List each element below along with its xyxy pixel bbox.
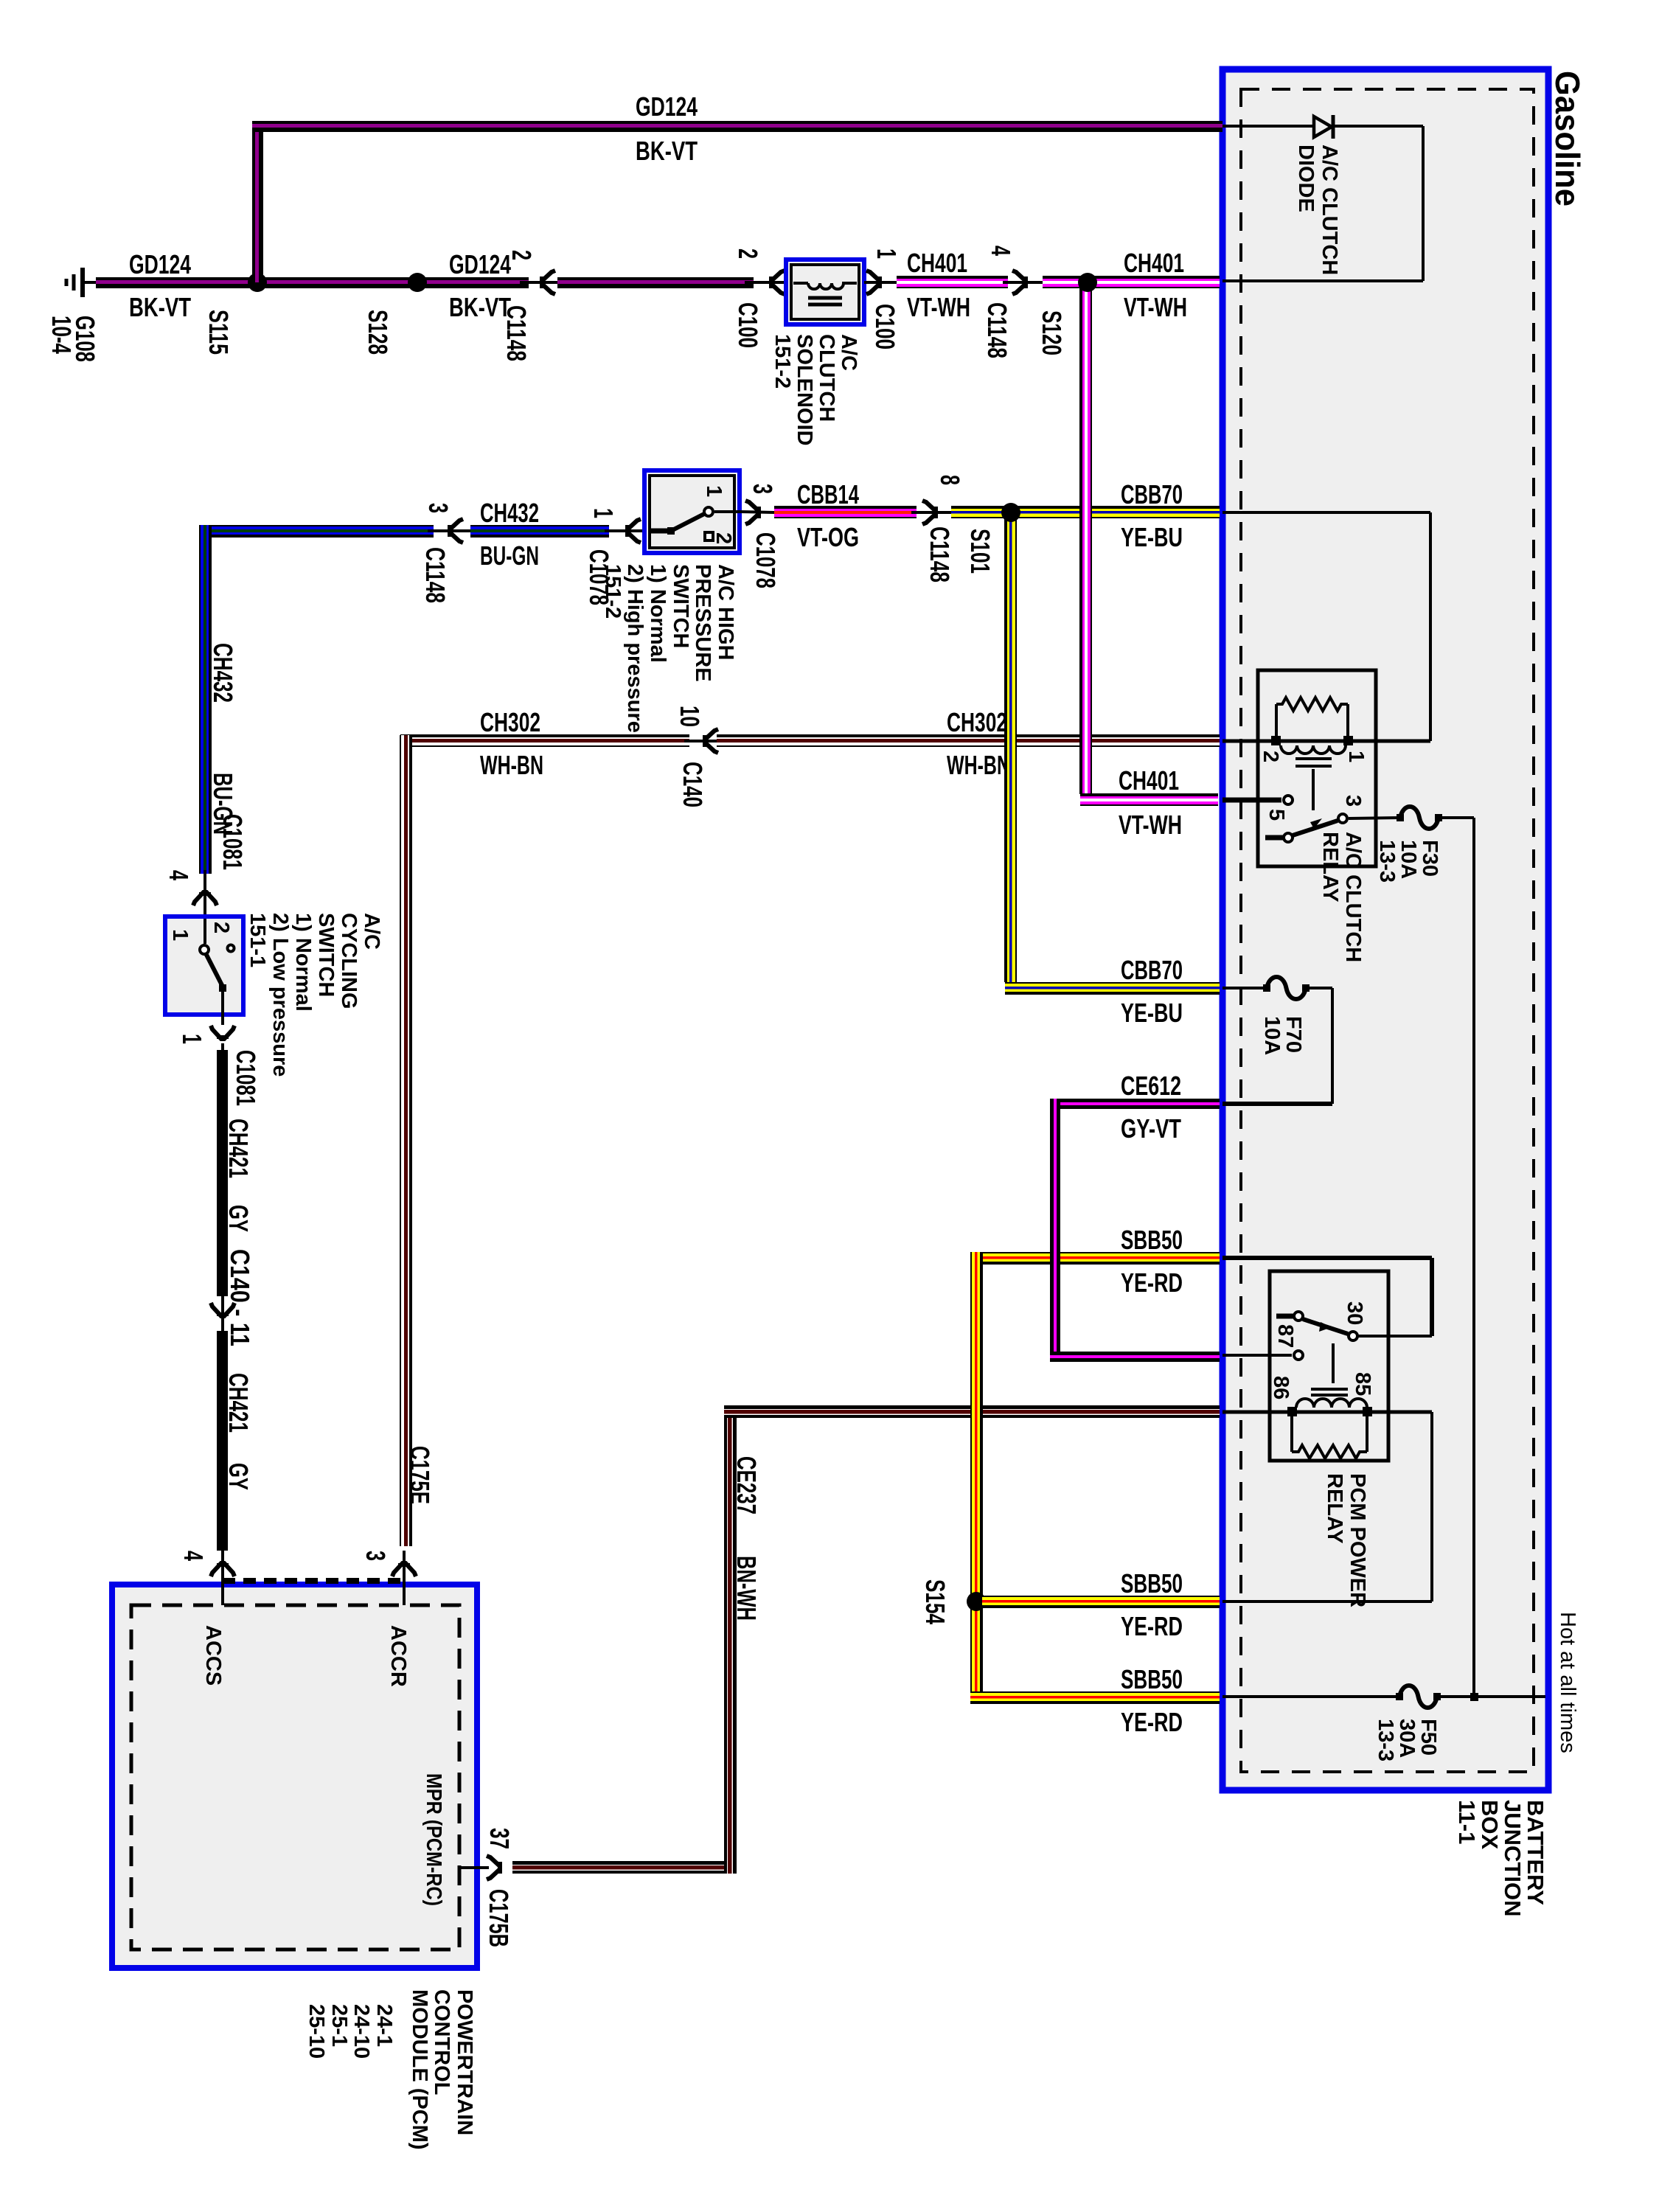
A/C relay pin 5 contact <box>1284 796 1293 804</box>
powertrain control module box <box>112 1585 477 1968</box>
PCM pin 37 arrow <box>487 1856 500 1879</box>
svg-text:2: 2 <box>209 922 233 933</box>
svg-text:A/C CLUTCH: A/C CLUTCH <box>1341 832 1365 962</box>
svg-text:CBB70: CBB70 <box>1121 955 1183 985</box>
svg-text:VT-WH: VT-WH <box>1119 810 1182 840</box>
wire CE237 BN-WH horizontal top <box>724 1405 1220 1418</box>
splice S154 <box>967 1592 986 1611</box>
svg-text:CLUTCH: CLUTCH <box>815 334 838 422</box>
svg-text:A/C: A/C <box>360 913 383 950</box>
A/C clutch relay box <box>1258 670 1376 866</box>
svg-text:10A: 10A <box>1260 1016 1284 1055</box>
svg-text:1: 1 <box>702 485 726 497</box>
HP switch pin1 contact <box>704 507 713 516</box>
wire SBB50 YE-RD #2 <box>982 1596 1220 1608</box>
svg-text:CYCLING: CYCLING <box>337 913 361 1009</box>
svg-text:VT-OG: VT-OG <box>797 522 859 552</box>
wire CE612 GY-VT horizontal top <box>1050 1099 1220 1109</box>
svg-text:BN-WH: BN-WH <box>731 1556 762 1621</box>
A/C relay core bars <box>1295 757 1332 760</box>
svg-text:S154: S154 <box>920 1579 950 1624</box>
svg-text:CH432: CH432 <box>480 498 539 528</box>
svg-text:BK-VT: BK-VT <box>636 136 698 166</box>
svg-text:4: 4 <box>178 1551 209 1561</box>
wire CH401 VT-WH segment 2 <box>1043 276 1220 288</box>
svg-text:BK-VT: BK-VT <box>449 292 511 322</box>
wire CE237 BN-WH vertical <box>724 1412 737 1874</box>
A/C relay pin 5 line <box>1222 798 1281 803</box>
svg-text:1: 1 <box>168 929 192 941</box>
svg-text:CH421: CH421 <box>223 1119 254 1178</box>
PCM inner dashed border <box>131 1605 459 1950</box>
svg-text:24-10: 24-10 <box>349 2004 373 2059</box>
svg-text:3: 3 <box>423 503 453 513</box>
PCM power relay box <box>1270 1271 1388 1461</box>
A/C relay pin 3 contact <box>1338 814 1347 823</box>
cycling switch alt contact <box>228 945 234 952</box>
F30 output line <box>1439 816 1474 819</box>
svg-text:WH-BN: WH-BN <box>480 750 543 780</box>
svg-text:25-1: 25-1 <box>327 2004 351 2047</box>
solenoid pin 1 arrow <box>864 281 898 284</box>
svg-text:YE-BU: YE-BU <box>1121 522 1183 552</box>
PCM pin 4 lead <box>221 1551 224 1605</box>
svg-text:C1148: C1148 <box>925 526 955 582</box>
svg-text:C175B: C175B <box>484 1889 514 1947</box>
connector C140 pin 10 arrow <box>684 740 726 742</box>
svg-text:BU-GN: BU-GN <box>480 540 539 571</box>
svg-text:30: 30 <box>1343 1301 1366 1325</box>
svg-text:C100: C100 <box>733 302 763 348</box>
wire SBB50 YE-RD #1 <box>970 1252 1220 1265</box>
svg-text:C140: C140 <box>678 762 708 807</box>
wire CH432 BU-GN horizontal left <box>211 525 434 538</box>
svg-text:CH401: CH401 <box>1119 765 1179 796</box>
svg-text:Hot at all times: Hot at all times <box>1556 1612 1579 1753</box>
svg-text:10: 10 <box>675 706 705 727</box>
connector C100 pin 2 arrow <box>745 281 786 284</box>
PCM pin4-pin3 dashed link <box>223 1578 404 1584</box>
fuse F70 <box>1267 977 1306 999</box>
connector C1148 pin 2 arrow (GD124) <box>520 281 566 284</box>
ground G108 <box>80 268 85 297</box>
PCM relay pin 87 line <box>1222 1354 1292 1357</box>
svg-text:151-2: 151-2 <box>771 334 794 389</box>
svg-text:CH432: CH432 <box>208 643 238 703</box>
svg-text:24-1: 24-1 <box>372 2004 396 2047</box>
wire CH432 BU-GN vertical <box>199 525 212 874</box>
wire CH401 VT-WH segment 1 <box>897 276 1008 288</box>
splice S101 dot <box>1001 503 1020 522</box>
PCM relay lever <box>1303 1319 1348 1334</box>
wire SBB50 YE-RD vertical <box>970 1252 983 1691</box>
svg-text:GY: GY <box>223 1463 254 1490</box>
wire GD124 vertical branch at S115 <box>252 126 263 282</box>
HP switch lever <box>667 527 675 535</box>
connector C1078 pin 1 arrow <box>605 529 644 532</box>
svg-text:SBB50: SBB50 <box>1121 1225 1183 1255</box>
svg-text:151-2: 151-2 <box>601 564 625 619</box>
svg-text:13-3: 13-3 <box>1374 1719 1397 1761</box>
svg-text:SBB50: SBB50 <box>1121 1664 1183 1694</box>
A/C relay coil bumps <box>1281 745 1346 754</box>
PCM relay node 86 <box>1287 1407 1297 1416</box>
svg-text:37: 37 <box>484 1828 515 1849</box>
A/C relay resistor <box>1275 704 1278 741</box>
A/C relay pin3 to F30 line <box>1349 818 1400 818</box>
wire CH302 WH-BN horizontal left <box>400 734 689 747</box>
splice S120 dot <box>1078 273 1097 292</box>
cycling switch input line <box>204 919 206 944</box>
svg-text:C1078: C1078 <box>751 532 781 588</box>
PCM relay moving contact <box>1276 1314 1293 1319</box>
wire GD124 BK-VT segment 1 <box>96 277 529 288</box>
wire CBB70 YE-BU vertical <box>1004 512 1017 982</box>
PCM relay core bars <box>1311 1388 1348 1391</box>
wire CBB14 VT-OG <box>774 506 917 518</box>
svg-text:CE612: CE612 <box>1121 1071 1181 1101</box>
svg-text:13-3: 13-3 <box>1375 840 1399 883</box>
connector C1148 pin 8 arrow <box>911 511 953 514</box>
svg-text:CH302: CH302 <box>480 707 540 737</box>
svg-text:F50: F50 <box>1416 1719 1440 1756</box>
A/C relay lever <box>1293 821 1338 835</box>
F70 output loop <box>1306 987 1332 990</box>
PCM relay resistor <box>1290 1412 1293 1452</box>
F50 feed line <box>1222 1695 1399 1698</box>
PCM relay pin 87 contact <box>1294 1351 1303 1360</box>
svg-text:C1081: C1081 <box>231 1050 261 1106</box>
svg-text:BATTERY: BATTERY <box>1523 1800 1548 1905</box>
svg-text:C140 - 11: C140 - 11 <box>225 1249 255 1346</box>
wire CE612 GY-VT horizontal bottom <box>1050 1352 1220 1362</box>
svg-text:A/C CLUTCH: A/C CLUTCH <box>1318 145 1341 275</box>
HP switch output line <box>714 510 740 513</box>
svg-text:POWERTRAIN: POWERTRAIN <box>453 1989 476 2135</box>
wire CH432 BU-GN horizontal right <box>470 525 609 538</box>
svg-text:1: 1 <box>872 248 902 259</box>
svg-text:3: 3 <box>748 484 778 494</box>
svg-text:2: 2 <box>1259 751 1282 762</box>
svg-text:A/C HIGH: A/C HIGH <box>714 564 737 661</box>
SBB50#1 to pin30 line <box>1222 1256 1432 1260</box>
svg-text:11-1: 11-1 <box>1454 1800 1480 1844</box>
svg-text:CH401: CH401 <box>907 248 967 278</box>
A/C clutch solenoid box <box>786 260 864 324</box>
svg-text:RELAY: RELAY <box>1318 832 1342 902</box>
svg-text:CBB70: CBB70 <box>1121 479 1183 509</box>
svg-text:GY-VT: GY-VT <box>1121 1113 1181 1144</box>
svg-text:2: 2 <box>733 248 763 259</box>
PCM pin 3 lead <box>403 1551 406 1605</box>
svg-text:10-4: 10-4 <box>46 316 77 354</box>
wire CE237 BN-WH horizontal bottom <box>512 1861 736 1874</box>
fuse F30 <box>1400 807 1439 829</box>
A/C relay armature link <box>1312 769 1315 810</box>
PCM relay coil bumps <box>1296 1399 1367 1408</box>
svg-text:SOLENOID: SOLENOID <box>793 334 816 445</box>
svg-text:10A: 10A <box>1397 840 1420 879</box>
PCM relay pin30 line <box>1349 1335 1432 1338</box>
svg-text:S120: S120 <box>1037 310 1067 355</box>
svg-text:CBB14: CBB14 <box>797 479 859 509</box>
splice S128 <box>408 273 427 292</box>
BJB inner dashed border <box>1241 89 1534 1772</box>
svg-text:PRESSURE: PRESSURE <box>691 564 714 682</box>
A/C cycling switch box <box>165 917 243 1015</box>
svg-text:C1081: C1081 <box>218 814 248 870</box>
A/C clutch diode <box>1314 116 1332 137</box>
svg-text:1: 1 <box>588 508 619 518</box>
HP switch alt contact 2 <box>705 532 713 540</box>
wire CH421 GY segment 1 <box>217 1050 228 1296</box>
svg-text:2) High pressure: 2) High pressure <box>623 564 647 733</box>
wire CH401 VT-WH vertical from S120 <box>1079 282 1092 794</box>
svg-text:MPR (PCM-RC): MPR (PCM-RC) <box>422 1773 445 1906</box>
battery junction box (BJB) outline <box>1222 69 1548 1790</box>
svg-text:RELAY: RELAY <box>1323 1473 1346 1544</box>
svg-text:GD124: GD124 <box>636 91 698 122</box>
wire CH302 WH-BN horizontal right <box>717 734 1220 747</box>
svg-text:BOX: BOX <box>1477 1800 1503 1850</box>
svg-text:BK-VT: BK-VT <box>129 292 191 322</box>
svg-text:PCM POWER: PCM POWER <box>1346 1473 1369 1607</box>
svg-text:CONTROL: CONTROL <box>430 1989 453 2095</box>
svg-text:4: 4 <box>164 870 194 880</box>
svg-text:C1148: C1148 <box>982 302 1012 358</box>
PCM pin 4 arrow <box>211 1563 234 1576</box>
A/C relay moving contact <box>1265 835 1283 841</box>
svg-text:GD124: GD124 <box>129 249 191 279</box>
CBB70-to-coil loop <box>1222 511 1430 514</box>
splice S115 <box>248 273 267 292</box>
svg-text:151-1: 151-1 <box>246 913 269 967</box>
svg-text:DIODE: DIODE <box>1294 145 1318 212</box>
svg-text:S128: S128 <box>363 310 393 355</box>
connector C1081 pin 1 arrow <box>211 1026 234 1039</box>
svg-text:F70: F70 <box>1281 1016 1305 1053</box>
svg-text:SWITCH: SWITCH <box>314 913 338 997</box>
wire CBB70 YE-BU to F70 <box>1005 982 1220 995</box>
svg-text:87: 87 <box>1273 1324 1297 1348</box>
svg-text:85: 85 <box>1351 1372 1374 1396</box>
wire SBB50 YE-RD #3 <box>970 1691 1220 1704</box>
connector C1081 pin 4 arrow <box>204 870 206 917</box>
svg-text:Gasoline: Gasoline <box>1548 71 1587 206</box>
svg-text:WH-BN: WH-BN <box>947 750 1010 780</box>
PCM relay node 85 <box>1363 1407 1372 1416</box>
svg-text:F30: F30 <box>1418 840 1441 877</box>
svg-text:SWITCH: SWITCH <box>669 564 692 648</box>
wire CBB70 YE-BU segment 1 <box>951 506 1220 518</box>
svg-text:2: 2 <box>507 250 537 260</box>
svg-text:ACCS: ACCS <box>201 1625 225 1686</box>
A/C high pressure switch box <box>644 470 740 553</box>
svg-text:YE-BU: YE-BU <box>1121 998 1183 1028</box>
wire CH421 GY segment 2 <box>217 1331 228 1551</box>
wire GD124 top horizontal <box>252 121 1222 132</box>
svg-text:CE237: CE237 <box>731 1456 762 1514</box>
svg-text:2: 2 <box>712 532 735 544</box>
connector C1148 pin 4 arrow <box>1003 281 1044 284</box>
svg-text:30A: 30A <box>1395 1719 1419 1758</box>
HP switch pin 3 arrow <box>740 512 774 512</box>
A/C relay node pin 2 <box>1271 736 1281 745</box>
svg-text:1) Normal: 1) Normal <box>646 564 669 663</box>
wire CH401 VT-WH to relay pin 5 <box>1080 793 1218 806</box>
solenoid coil <box>793 282 808 285</box>
svg-text:A/C: A/C <box>837 334 860 371</box>
svg-text:YE-RD: YE-RD <box>1121 1611 1183 1641</box>
svg-text:YE-RD: YE-RD <box>1121 1707 1183 1737</box>
HP switch input line <box>650 529 668 534</box>
svg-text:ACCR: ACCR <box>386 1625 410 1687</box>
wire GD124 BK-VT segment 2 <box>557 277 754 288</box>
wire CH302 WH-BN vertical <box>400 735 412 1546</box>
svg-text:SBB50: SBB50 <box>1121 1568 1183 1599</box>
svg-text:3: 3 <box>1341 795 1365 807</box>
svg-text:CH302: CH302 <box>947 707 1007 737</box>
svg-text:S115: S115 <box>204 310 234 355</box>
wire CE612 GY-VT vertical <box>1050 1099 1060 1362</box>
PCM pin 37 lead <box>459 1866 489 1869</box>
svg-text:CH421: CH421 <box>223 1373 254 1433</box>
PCM relay armature link <box>1332 1343 1335 1383</box>
svg-text:1: 1 <box>1344 751 1368 762</box>
svg-text:C100: C100 <box>870 304 900 349</box>
svg-text:86: 86 <box>1269 1376 1293 1399</box>
svg-text:JUNCTION: JUNCTION <box>1500 1800 1526 1916</box>
PCM pin 3 arrow <box>392 1563 416 1576</box>
svg-text:5: 5 <box>1265 809 1288 821</box>
cycling switch lever <box>206 953 223 987</box>
svg-text:VT-WH: VT-WH <box>1124 292 1187 322</box>
svg-text:C175E: C175E <box>405 1446 435 1504</box>
svg-text:25-10: 25-10 <box>305 2004 328 2059</box>
A/C clutch diode feed line <box>1222 125 1312 128</box>
PCM relay pin 30 contact <box>1349 1332 1357 1340</box>
A/C relay coil line <box>1222 740 1430 743</box>
fuse F50 <box>1399 1686 1437 1708</box>
F70 feed line <box>1222 987 1267 990</box>
A/C clutch diode loop <box>1335 125 1423 128</box>
svg-text:S101: S101 <box>965 529 995 574</box>
connector C1148 pin 3 arrow <box>428 529 472 532</box>
cycling switch output line <box>221 988 224 1025</box>
svg-text:1: 1 <box>177 1034 207 1044</box>
svg-text:1) Normal: 1) Normal <box>291 913 315 1012</box>
svg-text:GY: GY <box>223 1205 254 1232</box>
F50 output line <box>1437 1695 1545 1698</box>
cycling switch pin contact <box>200 945 209 954</box>
svg-text:C1148: C1148 <box>420 547 451 603</box>
svg-text:8: 8 <box>935 475 965 485</box>
SBB50#2 coil return line <box>1430 1412 1433 1601</box>
junction F30/F50 <box>1470 1693 1478 1701</box>
svg-text:GD124: GD124 <box>449 249 511 279</box>
svg-text:MODULE (PCM): MODULE (PCM) <box>408 1989 431 2149</box>
PCM relay coil line <box>1222 1411 1432 1414</box>
svg-text:4: 4 <box>986 246 1016 256</box>
svg-text:CH401: CH401 <box>1124 248 1184 278</box>
A/C relay node pin 1 <box>1343 736 1353 745</box>
connector C140 pin 11 arrow <box>221 1296 224 1331</box>
svg-text:YE-RD: YE-RD <box>1121 1267 1183 1298</box>
svg-text:2) Low pressure: 2) Low pressure <box>268 913 292 1077</box>
svg-text:3: 3 <box>361 1551 391 1561</box>
svg-text:VT-WH: VT-WH <box>907 292 970 322</box>
